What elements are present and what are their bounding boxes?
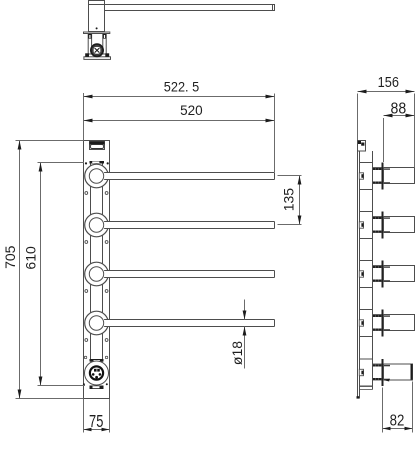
svg-text:520: 520 [180, 103, 203, 118]
svg-text:88: 88 [391, 100, 407, 117]
svg-text:156: 156 [378, 75, 399, 91]
svg-text:75: 75 [89, 411, 103, 431]
svg-text:522. 5: 522. 5 [164, 80, 199, 95]
svg-text:ø18: ø18 [229, 341, 245, 365]
svg-text:82: 82 [390, 413, 405, 430]
svg-text:135: 135 [281, 188, 297, 212]
svg-text:705: 705 [2, 245, 18, 269]
svg-text:610: 610 [23, 246, 39, 270]
